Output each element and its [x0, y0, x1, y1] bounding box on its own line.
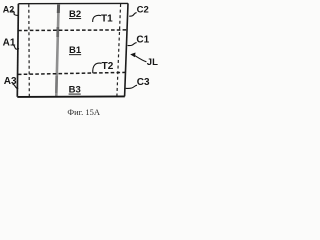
- svg-text:B1: B1: [69, 45, 82, 56]
- svg-text:T2: T2: [102, 61, 114, 72]
- svg-text:JL: JL: [147, 57, 158, 68]
- svg-text:A3: A3: [4, 76, 17, 87]
- svg-text:C1: C1: [136, 34, 149, 45]
- svg-text:C3: C3: [137, 77, 150, 88]
- svg-text:A1: A1: [3, 37, 16, 48]
- svg-text:B2: B2: [69, 9, 81, 20]
- svg-text:C2: C2: [137, 5, 149, 16]
- svg-text:Фиг. 15А: Фиг. 15А: [67, 107, 101, 117]
- svg-text:B3: B3: [69, 85, 81, 96]
- svg-text:A2: A2: [3, 4, 15, 14]
- svg-text:T1: T1: [101, 13, 113, 24]
